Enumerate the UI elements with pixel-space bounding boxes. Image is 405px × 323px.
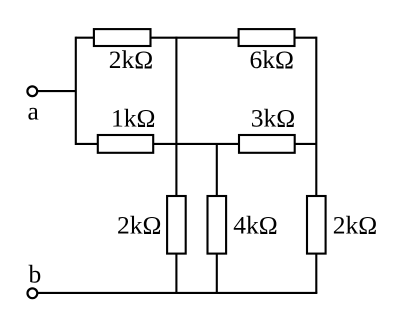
svg-text:1kΩ: 1kΩ <box>111 103 155 132</box>
svg-text:2kΩ: 2kΩ <box>109 45 153 74</box>
svg-text:b: b <box>29 259 42 288</box>
svg-text:2kΩ: 2kΩ <box>117 211 161 240</box>
svg-text:4kΩ: 4kΩ <box>233 211 277 240</box>
svg-text:2kΩ: 2kΩ <box>333 211 377 240</box>
svg-text:3kΩ: 3kΩ <box>251 103 295 132</box>
svg-text:a: a <box>28 97 39 126</box>
svg-text:6kΩ: 6kΩ <box>250 45 294 74</box>
